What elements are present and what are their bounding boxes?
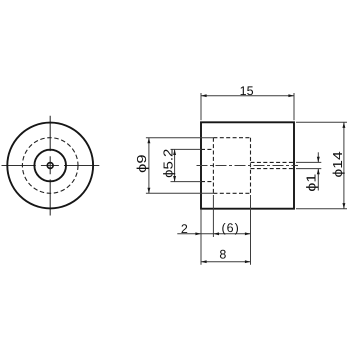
- front view: vertical centerline: [49, 116, 51, 216]
- dim phi5.2: extension lines: [171, 149, 202, 181]
- dim phi1: dimension line below: [317, 169, 319, 191]
- svg-text:15: 15: [240, 84, 254, 98]
- dim 8: left arrow: [201, 260, 207, 263]
- hidden line: phi 9 cavity top: [213, 137, 250, 139]
- dim 8: right arrow: [245, 260, 251, 263]
- hidden line: phi 5.2 hole top: [201, 148, 213, 150]
- dim phi14: extension lines: [296, 122, 347, 208]
- svg-text:2: 2: [181, 222, 188, 236]
- svg-text:ϕ9: ϕ9: [134, 154, 149, 172]
- dim 15: right arrow: [288, 94, 294, 97]
- side view: body rectangle: [201, 122, 294, 208]
- hidden line: phi 1 hole top: [251, 161, 295, 163]
- hidden line: phi 1 hole bottom: [251, 168, 295, 170]
- dim 8: dimension line: [201, 261, 251, 263]
- dim phi9: top arrow: [147, 138, 150, 144]
- dim phi9: bottom arrow: [147, 188, 150, 194]
- dim phi5.2: bottom arrow: [173, 176, 176, 182]
- hidden line: phi 9 cavity bottom: [213, 192, 250, 194]
- dim phi9: dimension line: [148, 138, 150, 194]
- dim (6): dimension line: [213, 233, 250, 235]
- dim 15: extension lines: [201, 93, 294, 120]
- inner circle (phi 5.2): [34, 150, 66, 182]
- bottom dims: extension line at depth 8: [250, 195, 252, 265]
- tiny circle (phi 1): [47, 163, 53, 169]
- dim phi5.2: top arrow: [173, 149, 176, 155]
- hidden line: phi 5.2 hole bottom: [201, 181, 213, 183]
- dim phi1: dimension line above: [317, 152, 319, 162]
- svg-text:(6): (6): [221, 221, 239, 235]
- dim phi5.2: dimension line: [174, 149, 176, 181]
- dim 2: arrow pointing right at left face: [195, 232, 201, 235]
- dim phi9: extension lines: [146, 138, 214, 194]
- dim phi14: bottom arrow: [342, 203, 345, 209]
- dim (6): right arrow: [245, 232, 251, 235]
- dim phi1: lower arrow pointing up: [317, 169, 320, 175]
- dim phi14: dimension line: [343, 122, 345, 208]
- dim phi14: top arrow: [342, 122, 345, 128]
- svg-text:ϕ14: ϕ14: [330, 151, 345, 177]
- dim 15: dimension line: [201, 95, 294, 97]
- dim 2: tail line: [177, 233, 213, 235]
- dim 15: left arrow: [201, 94, 207, 97]
- svg-text:ϕ5.2: ϕ5.2: [160, 149, 175, 178]
- dashed circle (phi 9 hidden): [22, 138, 78, 194]
- dim (6): left arrow: [213, 232, 219, 235]
- svg-text:ϕ1: ϕ1: [303, 174, 318, 192]
- side view axis centerline: [197, 165, 299, 167]
- front view: horizontal centerline: [2, 165, 100, 167]
- bottom dims: extension line at depth 2: [212, 195, 214, 237]
- outer circle (phi 14): [7, 123, 93, 209]
- dim phi1: extension lines: [296, 162, 321, 168]
- hidden line: step face at depth 2: [212, 138, 214, 194]
- hidden line: cavity bottom face at depth 8: [250, 138, 252, 194]
- svg-text:8: 8: [219, 248, 226, 262]
- bottom dims: extension line at left face: [200, 209, 202, 265]
- dim phi1: upper arrow pointing down: [317, 157, 320, 163]
